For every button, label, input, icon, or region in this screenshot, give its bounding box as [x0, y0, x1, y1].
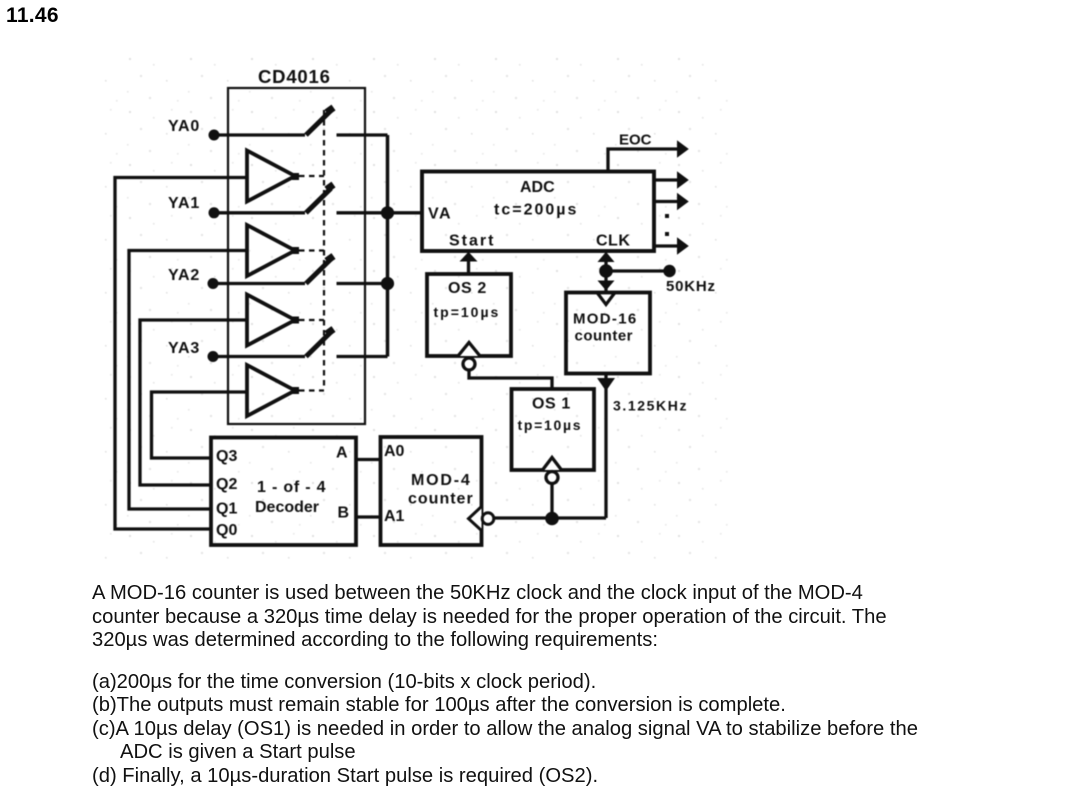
wire control Q0 to B0 [115, 178, 247, 530]
node B1 apex dot [292, 247, 299, 254]
node bus junction at YA2 [381, 277, 394, 290]
op-amp ADC box U1 [422, 172, 654, 252]
OS1 trigger bubble [546, 472, 558, 484]
arrowhead down into MOD-16 [598, 281, 615, 291]
svg-text:EOC: EOC [619, 132, 652, 149]
OS1 trigger chevron [543, 458, 562, 471]
dashed stub B2 apex [299, 319, 324, 321]
wire CLK vertical [604, 256, 607, 292]
svg-text:OS 2: OS 2 [448, 280, 487, 297]
wire OS1 out to OS2 trigger [469, 370, 552, 389]
dashed stub B3 apex [299, 389, 324, 391]
wire bus to ADC VA [388, 211, 423, 214]
svg-text:tc=200µs: tc=200µs [494, 202, 578, 219]
svg-text:Q1: Q1 [216, 501, 237, 518]
node YA0 terminal dot [209, 130, 220, 141]
svg-text:ADC: ADC [520, 179, 555, 196]
counter MOD-4 box [381, 437, 482, 545]
buffer B3 [247, 365, 295, 416]
wire 3.125KHz horizontal [495, 516, 607, 519]
switch S3 lever [306, 332, 331, 357]
svg-text:B: B [338, 505, 350, 522]
counter MOD-16 box [566, 293, 650, 374]
wire control Q2 to B2 [140, 320, 247, 485]
svg-text:CD4016: CD4016 [258, 66, 331, 87]
wire EOC [608, 149, 677, 172]
wire data out bit1 [654, 178, 677, 181]
svg-text:VA: VA [428, 206, 452, 223]
wire S0 output to bus [337, 133, 388, 136]
svg-text:Q3: Q3 [216, 448, 237, 465]
svg-text:A0: A0 [384, 443, 405, 460]
one-shot OS1 box [512, 389, 595, 470]
node trigger junction [545, 512, 559, 526]
wire A0 to A [356, 458, 381, 461]
svg-text:MOD-16: MOD-16 [573, 311, 637, 328]
buffer B0 [247, 151, 295, 202]
dashed stub B0 apex [299, 175, 324, 177]
wire YA1 input [214, 211, 305, 214]
ellipsis dot 2 [665, 232, 669, 236]
node YA3 terminal dot [208, 351, 219, 362]
svg-text:OS 1: OS 1 [532, 396, 571, 413]
MOD-4 clock bubble [482, 513, 494, 525]
node 50KHz terminal dot [663, 265, 675, 277]
wire S2 output to bus [337, 282, 388, 285]
wire MOD-16 output down [604, 374, 607, 519]
svg-text:tp=10µs: tp=10µs [434, 304, 501, 320]
node CLK junction [599, 264, 613, 278]
arrowhead data out bit2 [677, 193, 689, 210]
OS2 trigger chevron [458, 343, 480, 357]
CD4016 box [228, 88, 365, 424]
node bus junction at YA1 [381, 206, 394, 219]
wire A1 to B [356, 515, 381, 518]
wire data out bit2 [654, 200, 677, 203]
svg-text:counter: counter [575, 328, 634, 345]
svg-text:A: A [336, 445, 348, 462]
arrowhead up into CLK [598, 252, 615, 262]
wire data out bit n [654, 244, 677, 247]
svg-text:3.125KHz: 3.125KHz [613, 398, 688, 414]
requirements list [92, 671, 918, 789]
explanatory paragraph [92, 582, 887, 653]
svg-text:Decoder: Decoder [255, 499, 319, 516]
node YA2 terminal dot [208, 278, 219, 289]
svg-text:counter: counter [408, 491, 474, 508]
svg-text:MOD-4: MOD-4 [411, 472, 472, 489]
svg-text:Start: Start [449, 233, 495, 250]
svg-text:Q2: Q2 [216, 476, 237, 493]
arrowhead into Start [460, 252, 478, 262]
node B0 apex dot [292, 173, 299, 180]
arrowhead data out bit1 [677, 171, 689, 188]
buffer B2 [247, 295, 295, 346]
wire OS1 trigger to junction [550, 484, 553, 519]
dashed control line vertical [323, 110, 325, 390]
wire S3 output to bus [337, 355, 388, 358]
svg-text:YA1: YA1 [168, 195, 200, 212]
svg-text:YA3: YA3 [168, 340, 200, 357]
svg-text:1 - of - 4: 1 - of - 4 [257, 479, 326, 496]
svg-text:CLK: CLK [596, 233, 630, 250]
wire YA3 input [213, 355, 305, 358]
wire control Q1 to B1 [129, 251, 247, 510]
svg-text:tp=10µs: tp=10µs [518, 417, 583, 433]
EOC arrowhead [677, 140, 689, 157]
switch S2 lever [306, 259, 331, 284]
svg-text:50KHz: 50KHz [666, 278, 716, 295]
arrowhead data out bit n [677, 237, 689, 254]
ellipsis dot 1 [665, 214, 669, 218]
dashed stub B1 apex [299, 249, 324, 251]
switch S0 lever [306, 111, 331, 136]
MOD-16 clock chevron [597, 293, 615, 305]
wire OS2 to Start [467, 260, 470, 274]
svg-text:Q0: Q0 [216, 522, 237, 539]
wire control Q3 to B3 [152, 392, 248, 458]
svg-text:YA2: YA2 [168, 267, 200, 284]
svg-text:A1: A1 [384, 508, 405, 525]
OS2 trigger bubble [463, 358, 475, 370]
node B2 apex dot [292, 317, 299, 324]
switch S1 lever [306, 188, 331, 213]
wire analog bus vertical [386, 135, 390, 357]
wire YA2 input [213, 282, 305, 285]
arrowhead down on 3.125KHz wire [597, 378, 615, 391]
wire S1 output to bus [337, 211, 388, 214]
one-shot OS2 box [427, 274, 511, 356]
decoder 1-of-4 box [211, 438, 356, 546]
node YA1 terminal dot [209, 207, 220, 218]
svg-text:YA0: YA0 [168, 118, 200, 135]
buffer B1 [247, 225, 295, 276]
wire YA0 input [214, 133, 305, 136]
wire 50KHz input [606, 269, 664, 272]
MOD-4 clock chevron [469, 507, 482, 531]
node B3 apex dot [292, 387, 299, 394]
